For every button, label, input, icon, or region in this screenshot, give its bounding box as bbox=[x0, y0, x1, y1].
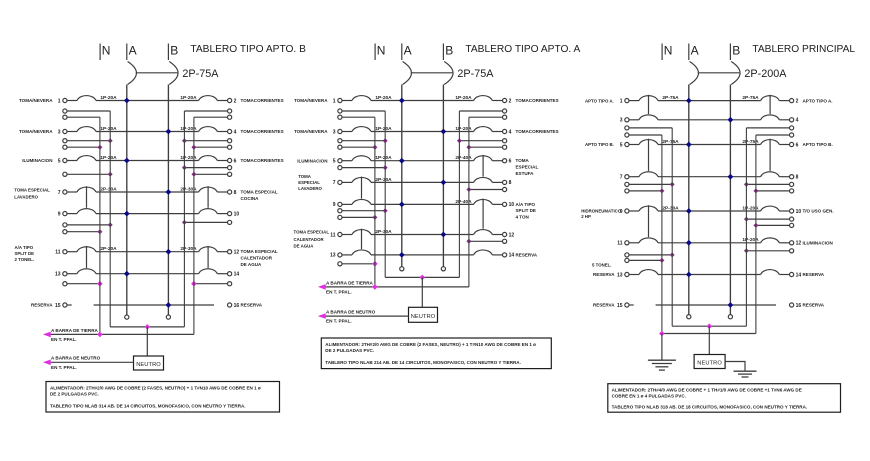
breaker CKT9 bump bbox=[77, 209, 96, 214]
main breaker 2P 2P-75A pole B bbox=[444, 62, 453, 85]
junction return bbox=[97, 229, 102, 234]
terminal pin 10 bbox=[790, 209, 794, 213]
breaker CKT7 bump bbox=[639, 172, 658, 177]
svg-text:2P-30A: 2P-30A bbox=[375, 229, 392, 235]
circuit row 3/4 wire bbox=[342, 131, 352, 133]
junction return bbox=[191, 145, 196, 150]
breaker CKT13 bump bbox=[77, 269, 96, 274]
breaker tie bar CKT6 bbox=[769, 139, 771, 171]
circuit row 9/10 wire bbox=[629, 210, 639, 212]
return wire to innerR at y=167.6 bbox=[228, 166, 232, 170]
junction circuit 11/12 on bus B bbox=[441, 232, 447, 238]
wire bbox=[217, 100, 227, 102]
arrow A BARRA DE NEUTRO bbox=[43, 360, 51, 366]
terminal pin 8 bbox=[228, 190, 232, 194]
svg-text:16: 16 bbox=[234, 303, 240, 309]
svg-text:APTO TIPO B.: APTO TIPO B. bbox=[585, 142, 614, 147]
terminal pin 6 bbox=[228, 158, 232, 162]
svg-text:EN T. PPAL.: EN T. PPAL. bbox=[326, 319, 352, 324]
junction return bbox=[744, 182, 749, 187]
breaker CKT1 bump bbox=[352, 96, 371, 101]
svg-text:5 TONEL.: 5 TONEL. bbox=[592, 263, 611, 268]
breaker CKT10 bump bbox=[761, 206, 780, 211]
svg-text:TABLERO TIPO NLAB 214 AB. DE 1: TABLERO TIPO NLAB 214 AB. DE 14 CIRCUITO… bbox=[325, 360, 521, 365]
svg-text:1P-20A: 1P-20A bbox=[375, 95, 392, 101]
junction circuit 3/4 on bus B bbox=[441, 129, 447, 135]
node B feeder (PANEL TABLERO PRINCIPAL) bbox=[729, 44, 731, 61]
svg-text:COCINA: COCINA bbox=[241, 196, 260, 201]
circuit row 5/6 wire bbox=[629, 144, 639, 146]
svg-text:2P-40A: 2P-40A bbox=[455, 155, 472, 161]
breaker CKT7 bump bbox=[352, 177, 371, 182]
terminal pin 14 bbox=[503, 253, 507, 257]
wire ground collector bbox=[320, 286, 469, 288]
svg-text:10: 10 bbox=[509, 202, 515, 208]
terminal pin 11 bbox=[63, 250, 67, 254]
wire neutral collector bbox=[672, 325, 746, 327]
note box PANEL TABLERO TIPO APTO. B bbox=[46, 382, 280, 413]
wire bbox=[779, 100, 789, 102]
svg-text:NEUTRO: NEUTRO bbox=[411, 314, 436, 320]
terminal pin 14 bbox=[228, 272, 232, 276]
wire bbox=[492, 203, 502, 205]
wire bus A vertical (PANEL TABLERO TIPO APTO. B) bbox=[126, 85, 128, 315]
svg-text:6: 6 bbox=[796, 142, 799, 148]
junction return bbox=[466, 187, 471, 192]
wire bbox=[779, 210, 789, 212]
breaker tie bar CKT2 bbox=[769, 95, 771, 114]
svg-text:ILUMINACION: ILUMINACION bbox=[297, 158, 327, 163]
svg-text:12: 12 bbox=[509, 232, 515, 238]
svg-text:TABLERO TIPO NLAB 314 AB. DE 1: TABLERO TIPO NLAB 314 AB. DE 14 CIRCUITO… bbox=[50, 404, 246, 409]
terminal pin 15 bbox=[625, 303, 629, 307]
bus A bottom terminal bbox=[125, 315, 129, 319]
svg-text:4: 4 bbox=[234, 129, 237, 135]
terminal pin 4 bbox=[790, 118, 794, 122]
junction return bbox=[457, 138, 462, 143]
breaker CKT2 bump bbox=[761, 96, 780, 101]
svg-text:4: 4 bbox=[796, 118, 799, 124]
breaker CKT5 bump bbox=[639, 140, 658, 145]
breaker CKT5 bump bbox=[352, 156, 371, 161]
breaker CKT3 bump bbox=[639, 115, 658, 120]
svg-text:4 TON: 4 TON bbox=[516, 215, 529, 220]
junction return bbox=[670, 252, 675, 257]
terminal pin 3 bbox=[338, 129, 342, 133]
svg-text:NEUTRO: NEUTRO bbox=[136, 362, 161, 368]
return wire to innerR at y=219.1 bbox=[790, 217, 794, 221]
svg-text:5: 5 bbox=[58, 158, 61, 164]
wire ground collector bbox=[45, 333, 194, 335]
breaker tie bar CKT8 bbox=[207, 186, 209, 208]
junction return bbox=[191, 281, 197, 287]
svg-text:APTO TIPO A.: APTO TIPO A. bbox=[803, 98, 833, 103]
return wire to outerL at y=117.2 bbox=[63, 115, 67, 119]
svg-text:15: 15 bbox=[55, 303, 61, 309]
svg-text:2P-75A: 2P-75A bbox=[182, 68, 219, 80]
svg-text:TOMA/NEVERA: TOMA/NEVERA bbox=[294, 98, 328, 103]
main breaker tie bar bbox=[698, 72, 740, 74]
svg-text:15: 15 bbox=[617, 303, 623, 309]
svg-text:13: 13 bbox=[617, 272, 623, 278]
junction circuit 13/14 on bus A bbox=[124, 271, 130, 277]
wire bbox=[371, 100, 474, 102]
wire bbox=[658, 242, 761, 244]
junction circuit 3/4 on bus B bbox=[166, 129, 172, 135]
junction return bbox=[744, 248, 749, 253]
wire bbox=[96, 213, 199, 215]
breaker tie bar CKT12 bbox=[207, 246, 209, 268]
svg-text:1P-20A: 1P-20A bbox=[455, 95, 472, 101]
svg-text:TOMACORRIENTES: TOMACORRIENTES bbox=[516, 98, 559, 103]
wire bbox=[217, 191, 227, 193]
terminal pin 8 bbox=[503, 180, 507, 184]
terminal pin 11 bbox=[338, 232, 342, 236]
junction ground collector / left ground bus bbox=[97, 332, 103, 338]
return wire to innerL at y=184.4 bbox=[625, 182, 629, 186]
breaker CKT8 bump bbox=[761, 172, 780, 177]
breaker CKT3 bump bbox=[352, 127, 371, 132]
return wire to innerL at y=254.9 bbox=[625, 253, 629, 257]
svg-text:TOMACORRIENTES: TOMACORRIENTES bbox=[241, 158, 284, 163]
terminal pin 1 bbox=[625, 99, 629, 103]
svg-text:2P-30A: 2P-30A bbox=[375, 177, 392, 183]
junction circuit 7/8 on bus B bbox=[728, 174, 734, 180]
breaker CKT12 bump bbox=[474, 230, 493, 235]
return wire to outerL at y=260.4 bbox=[625, 258, 629, 262]
terminal pin 6 bbox=[503, 159, 507, 163]
circuit row 5/6 wire bbox=[342, 160, 352, 162]
junction return bbox=[659, 188, 664, 193]
svg-text:RESERVA: RESERVA bbox=[241, 303, 263, 308]
return wire to innerR at y=250.8 bbox=[790, 249, 794, 253]
wire bbox=[217, 213, 227, 215]
wire bbox=[217, 131, 227, 133]
svg-text:CALENTADOR: CALENTADOR bbox=[241, 256, 273, 261]
junction neutral drop bbox=[145, 324, 151, 330]
return wire to innerR at y=111.0 bbox=[228, 109, 232, 113]
return wire to outerL at y=217.4 bbox=[338, 215, 342, 219]
return wire to outerL at y=231.7 bbox=[63, 230, 67, 234]
main breaker 2P 2P-75A pole A bbox=[403, 62, 412, 85]
wire bbox=[217, 273, 227, 275]
svg-text:N: N bbox=[102, 44, 111, 58]
svg-text:LAVADERO: LAVADERO bbox=[298, 186, 322, 191]
svg-text:N: N bbox=[377, 44, 386, 58]
junction circuit 9/10 on bus A bbox=[399, 202, 405, 208]
junction return bbox=[659, 258, 664, 263]
breaker CKT7 bump bbox=[77, 187, 96, 192]
junction neutral drop bbox=[707, 323, 713, 329]
svg-text:RESERVA: RESERVA bbox=[803, 303, 825, 308]
junction return bbox=[182, 220, 187, 225]
breaker CKT11 bump bbox=[639, 238, 658, 243]
terminal pin 8 bbox=[790, 175, 794, 179]
wire outerL vertical (PANEL TABLERO TIPO APTO. B) bbox=[99, 117, 101, 334]
node NEUTRO bar bbox=[134, 356, 164, 370]
svg-text:T/O USO GEN.: T/O USO GEN. bbox=[803, 209, 834, 214]
breaker CKT5 bump bbox=[77, 156, 96, 161]
wire bus A vertical (PANEL TABLERO PRINCIPAL) bbox=[688, 85, 690, 315]
junction circuit 15/16 on bus B bbox=[166, 302, 172, 308]
main breaker 2P 2P-200A pole A bbox=[690, 62, 699, 85]
breaker tie bar CKT11 bbox=[86, 246, 88, 268]
wire outerR vertical (PANEL TABLERO TIPO APTO. B) bbox=[193, 117, 195, 334]
junction circuit 1/2 on bus A bbox=[124, 98, 130, 104]
breaker CKT14 bump bbox=[199, 269, 218, 274]
svg-text:7: 7 bbox=[620, 175, 623, 181]
junction return bbox=[182, 138, 187, 143]
terminal pin 14 bbox=[790, 272, 794, 276]
circuit row 5/6 wire bbox=[67, 160, 77, 162]
wire to neutral bar arrow bbox=[45, 361, 134, 363]
svg-text:RESERVA: RESERVA bbox=[31, 303, 53, 308]
node A feeder (PANEL TABLERO PRINCIPAL) bbox=[688, 44, 690, 61]
wire outerL vertical (PANEL TABLERO PRINCIPAL) bbox=[661, 135, 663, 334]
svg-text:13: 13 bbox=[330, 253, 336, 259]
svg-text:APTO TIPO B.: APTO TIPO B. bbox=[803, 142, 833, 147]
wire bbox=[96, 131, 199, 133]
circuit row 9/10 wire bbox=[342, 203, 352, 205]
terminal pin 13 bbox=[338, 253, 342, 257]
breaker CKT2 bump bbox=[474, 96, 493, 101]
svg-text:1P-20A: 1P-20A bbox=[100, 155, 117, 161]
svg-text:2P-200A: 2P-200A bbox=[744, 68, 787, 80]
breaker CKT12 bump bbox=[199, 247, 218, 252]
wire bbox=[492, 131, 502, 133]
breaker CKT6 bump bbox=[761, 140, 780, 145]
return wire to outerL at y=263.8 bbox=[338, 262, 342, 266]
circuit row 9/10 wire bbox=[67, 213, 77, 215]
svg-text:TOMACORRIENTES: TOMACORRIENTES bbox=[516, 129, 559, 134]
return wire to outerL at y=283.7 bbox=[63, 282, 67, 286]
junction circuit 3/4 on bus B bbox=[728, 117, 734, 123]
svg-text:13: 13 bbox=[55, 272, 61, 278]
breaker CKT4 bump bbox=[199, 127, 218, 132]
junction return bbox=[383, 208, 388, 213]
junction return bbox=[372, 145, 377, 150]
breaker tie bar CKT1 bbox=[648, 95, 650, 114]
svg-text:TABLERO PRINCIPAL: TABLERO PRINCIPAL bbox=[752, 44, 855, 55]
svg-text:EN T. PPAL.: EN T. PPAL. bbox=[51, 337, 77, 342]
wire bbox=[96, 100, 199, 102]
junction return bbox=[182, 165, 187, 170]
terminal pin 3 bbox=[63, 129, 67, 133]
svg-text:1P-20A: 1P-20A bbox=[455, 126, 472, 132]
circuit row 13/14 wire bbox=[342, 254, 352, 256]
return wire to innerL at y=174.3 bbox=[63, 172, 67, 176]
svg-text:9: 9 bbox=[58, 211, 61, 217]
wire innerR vertical (PANEL TABLERO TIPO APTO. A) bbox=[458, 111, 460, 277]
wire bbox=[371, 131, 474, 133]
svg-text:10: 10 bbox=[796, 209, 802, 215]
breaker tie bar CKT10 bbox=[482, 199, 484, 229]
svg-text:B: B bbox=[445, 44, 453, 58]
terminal pin 6 bbox=[790, 142, 794, 146]
svg-text:TOMA ESPECIAL: TOMA ESPECIAL bbox=[14, 188, 50, 193]
junction return bbox=[670, 182, 675, 187]
svg-text:7: 7 bbox=[333, 180, 336, 186]
circuit row 11/12 wire bbox=[629, 242, 639, 244]
node N feeder (PANEL TABLERO PRINCIPAL) bbox=[661, 44, 663, 61]
breaker CKT14 bump bbox=[761, 270, 780, 275]
svg-text:2P-20A: 2P-20A bbox=[100, 246, 117, 252]
svg-text:EN T. PPAL.: EN T. PPAL. bbox=[326, 290, 352, 295]
svg-text:14: 14 bbox=[509, 253, 515, 259]
bus A bottom terminal bbox=[687, 315, 691, 319]
terminal pin 9 bbox=[63, 212, 67, 216]
junction return bbox=[97, 145, 102, 150]
junction circuit 7/8 on bus B bbox=[166, 189, 172, 195]
svg-text:TOMA ESPECIAL: TOMA ESPECIAL bbox=[241, 190, 278, 195]
svg-text:SPLIT DE: SPLIT DE bbox=[516, 208, 536, 213]
return wire to innerR at y=140.7 bbox=[503, 139, 507, 143]
wire bbox=[658, 100, 761, 102]
svg-text:A BARRA DE TIERRA: A BARRA DE TIERRA bbox=[51, 328, 99, 333]
svg-text:1P-20A: 1P-20A bbox=[100, 126, 117, 132]
svg-text:TABLERO TIPO APTO. A: TABLERO TIPO APTO. A bbox=[465, 44, 580, 55]
wire bbox=[371, 254, 474, 256]
breaker CKT9 bump bbox=[352, 199, 371, 204]
svg-text:10: 10 bbox=[234, 211, 240, 217]
junction return bbox=[466, 239, 471, 244]
svg-text:LAVADERO: LAVADERO bbox=[14, 194, 38, 199]
return wire to innerL at y=140.7 bbox=[63, 139, 67, 143]
terminal pin 4 bbox=[503, 129, 507, 133]
svg-text:2 HP: 2 HP bbox=[581, 214, 591, 219]
circuit row 1/2 wire bbox=[342, 100, 352, 102]
main breaker 2P 2P-75A pole B bbox=[169, 62, 178, 85]
junction circuit 13/14 on bus A bbox=[399, 252, 405, 258]
svg-text:1P-20A: 1P-20A bbox=[375, 155, 392, 161]
terminal pin 12 bbox=[228, 250, 232, 254]
wire bbox=[96, 251, 199, 253]
return wire to innerL at y=111.0 bbox=[338, 109, 342, 113]
return wire to innerL at y=210.7 bbox=[338, 209, 342, 213]
return wire to outerR at y=147.2 bbox=[503, 145, 507, 149]
svg-text:ALIMENTADOR: 2TH#2/0 AWG DE CO: ALIMENTADOR: 2TH#2/0 AWG DE COBRE (2 FAS… bbox=[325, 342, 536, 347]
return wire to innerR at y=222.4 bbox=[228, 220, 232, 224]
circuit row 11/12 wire bbox=[342, 234, 352, 236]
return wire to outerR at y=190.9 bbox=[790, 189, 794, 193]
breaker CKT10 bump bbox=[199, 209, 218, 214]
terminal pin 2 bbox=[503, 98, 507, 102]
wire neutral drop bbox=[708, 326, 710, 354]
return wire to outerR at y=135.0 bbox=[790, 133, 794, 137]
svg-text:3: 3 bbox=[58, 129, 61, 135]
terminal pin 7 bbox=[338, 180, 342, 184]
wire ground drop bbox=[661, 334, 663, 360]
svg-text:ESPECIAL: ESPECIAL bbox=[298, 180, 320, 185]
circuit row 15/16 wire bbox=[67, 304, 72, 306]
return wire to innerL at y=167.6 bbox=[338, 166, 342, 170]
svg-text:RESERVA: RESERVA bbox=[803, 272, 825, 277]
svg-text:5: 5 bbox=[620, 142, 623, 148]
breaker CKT11 bump bbox=[352, 230, 371, 235]
svg-text:4: 4 bbox=[509, 129, 512, 135]
svg-text:ILUMINACION: ILUMINACION bbox=[22, 158, 52, 163]
svg-text:1P-20A: 1P-20A bbox=[180, 95, 197, 101]
return wire to outerR at y=117.2 bbox=[228, 115, 232, 119]
wire bbox=[779, 274, 789, 276]
wire innerR vertical (PANEL TABLERO PRINCIPAL) bbox=[745, 128, 747, 326]
svg-text:2P-40A: 2P-40A bbox=[455, 199, 472, 205]
svg-text:B: B bbox=[732, 44, 740, 58]
svg-text:RESERVA: RESERVA bbox=[516, 253, 538, 258]
svg-text:12: 12 bbox=[796, 241, 802, 247]
svg-text:DE 2 PULGADAS PVC.: DE 2 PULGADAS PVC. bbox=[325, 348, 374, 353]
return wire to outerL at y=190.9 bbox=[625, 189, 629, 193]
circuit row 7/8 wire bbox=[342, 181, 352, 183]
svg-text:11: 11 bbox=[617, 241, 623, 247]
svg-text:14: 14 bbox=[796, 272, 802, 278]
terminal pin 15 bbox=[63, 303, 67, 307]
svg-text:2P-30A: 2P-30A bbox=[662, 205, 679, 211]
svg-text:APTO TIPO A.: APTO TIPO A. bbox=[585, 98, 614, 103]
node B feeder (PANEL TABLERO TIPO APTO. A) bbox=[442, 44, 444, 61]
return wire to outerR at y=174.3 bbox=[228, 172, 232, 176]
circuit row 13/14 wire bbox=[629, 274, 639, 276]
breaker CKT6 bump bbox=[199, 156, 218, 161]
svg-text:16: 16 bbox=[796, 303, 802, 309]
breaker tie bar CKT7 bbox=[86, 186, 88, 208]
wire bbox=[371, 203, 474, 205]
wire neutral drop bbox=[146, 327, 148, 356]
wire bbox=[217, 160, 227, 162]
arrow A BARRA DE TIERRA bbox=[43, 332, 51, 338]
wire bbox=[492, 234, 502, 236]
junction circuit 11/12 on bus B bbox=[166, 249, 172, 255]
circuit row 15/16 wire bbox=[629, 304, 634, 306]
wire NEUTRO bar to ground bbox=[725, 362, 745, 371]
svg-text:A: A bbox=[129, 44, 137, 58]
terminal pin 5 bbox=[338, 159, 342, 163]
junction return bbox=[744, 217, 749, 222]
circuit row 1/2 wire bbox=[67, 100, 77, 102]
junction circuit 7/8 on bus B bbox=[441, 180, 447, 186]
main breaker 2P 2P-200A pole B bbox=[731, 62, 740, 85]
svg-text:TOMACORRIENTES: TOMACORRIENTES bbox=[241, 129, 284, 134]
svg-text:2P-30A: 2P-30A bbox=[180, 186, 197, 192]
svg-text:NEUTRO: NEUTRO bbox=[697, 360, 722, 366]
wire bbox=[492, 160, 502, 162]
breaker CKT4 bump bbox=[761, 115, 780, 120]
svg-text:SPLIT DE: SPLIT DE bbox=[15, 251, 35, 256]
svg-text:HIDRONEUMATICO: HIDRONEUMATICO bbox=[581, 209, 622, 214]
svg-text:6: 6 bbox=[234, 158, 237, 164]
terminal pin 7 bbox=[63, 190, 67, 194]
arrow A BARRA DE TIERRA bbox=[318, 284, 326, 290]
svg-text:2P-75A: 2P-75A bbox=[742, 95, 759, 101]
breaker CKT12 bump bbox=[761, 238, 780, 243]
svg-text:1P-20A: 1P-20A bbox=[100, 95, 117, 101]
svg-text:1: 1 bbox=[58, 98, 61, 104]
breaker tie bar CKT11 bbox=[361, 229, 363, 249]
breaker CKT2 bump bbox=[199, 96, 218, 101]
main breaker tie bar bbox=[411, 72, 453, 74]
svg-text:A BARRA DE TIERRA: A BARRA DE TIERRA bbox=[326, 280, 374, 285]
circuit row 3/4 wire bbox=[629, 119, 639, 121]
return wire to innerL at y=111.0 bbox=[63, 109, 67, 113]
svg-text:1: 1 bbox=[620, 98, 623, 104]
return wire to outerL at y=147.2 bbox=[63, 145, 67, 149]
wire outerR vertical (PANEL TABLERO PRINCIPAL) bbox=[755, 135, 757, 334]
junction return bbox=[383, 138, 388, 143]
wire bbox=[371, 234, 474, 236]
wire bbox=[96, 191, 199, 193]
svg-text:A: A bbox=[404, 44, 412, 58]
return wire to outerL at y=147.2 bbox=[338, 145, 342, 149]
